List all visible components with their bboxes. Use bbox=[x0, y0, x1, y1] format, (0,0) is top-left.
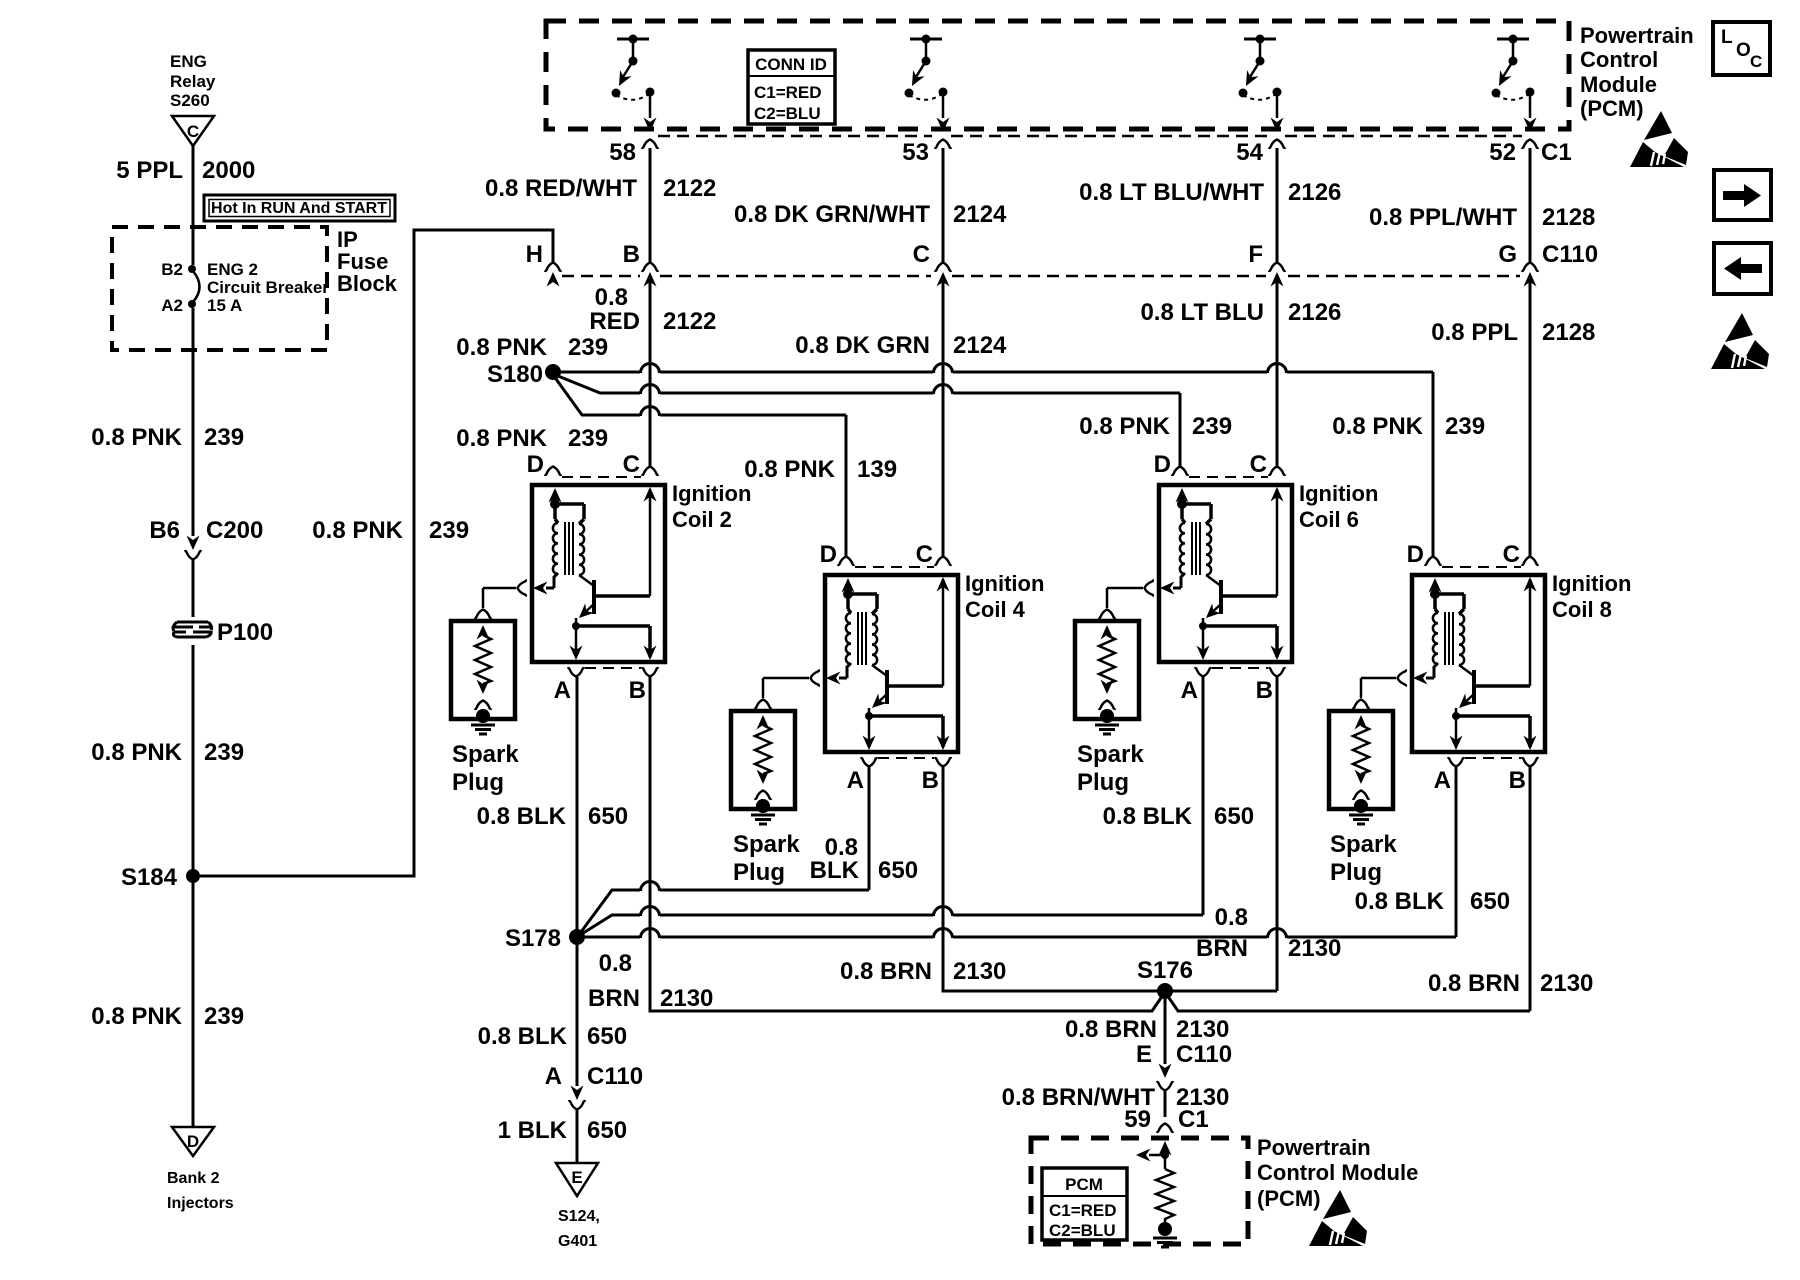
svg-text:A: A bbox=[545, 1063, 562, 1090]
svg-text:S124,: S124, bbox=[558, 1208, 600, 1225]
svg-text:2128: 2128 bbox=[1542, 319, 1595, 346]
svg-text:650: 650 bbox=[1214, 803, 1254, 830]
svg-text:S184: S184 bbox=[121, 864, 178, 891]
svg-text:0.8: 0.8 bbox=[599, 950, 632, 977]
svg-text:239: 239 bbox=[1192, 413, 1232, 440]
svg-text:0.8 PNK: 0.8 PNK bbox=[312, 517, 403, 544]
svg-text:0.8 DK GRN: 0.8 DK GRN bbox=[795, 332, 930, 359]
svg-text:BLK: BLK bbox=[810, 857, 860, 884]
svg-text:Plug: Plug bbox=[452, 769, 504, 796]
svg-text:0.8 DK GRN/WHT: 0.8 DK GRN/WHT bbox=[734, 201, 930, 228]
svg-text:Ignition: Ignition bbox=[672, 481, 751, 506]
svg-text:Bank 2: Bank 2 bbox=[167, 1170, 220, 1187]
svg-text:C2=BLU: C2=BLU bbox=[1049, 1221, 1116, 1240]
svg-text:2126: 2126 bbox=[1288, 179, 1341, 206]
svg-text:Coil 8: Coil 8 bbox=[1552, 597, 1612, 622]
svg-text:239: 239 bbox=[1445, 413, 1485, 440]
svg-text:0.8 PNK: 0.8 PNK bbox=[744, 456, 835, 483]
svg-text:A2: A2 bbox=[161, 296, 183, 315]
svg-text:S178: S178 bbox=[505, 925, 561, 952]
svg-text:Spark: Spark bbox=[1077, 741, 1144, 768]
svg-text:Powertrain: Powertrain bbox=[1257, 1135, 1371, 1160]
svg-text:2128: 2128 bbox=[1542, 204, 1595, 231]
svg-text:239: 239 bbox=[204, 739, 244, 766]
svg-text:C110: C110 bbox=[1542, 241, 1598, 268]
svg-text:59: 59 bbox=[1124, 1106, 1151, 1133]
svg-text:F: F bbox=[1248, 241, 1263, 268]
svg-text:Spark: Spark bbox=[1330, 831, 1397, 858]
svg-text:Hot In RUN And START: Hot In RUN And START bbox=[211, 200, 387, 217]
svg-text:0.8 BLK: 0.8 BLK bbox=[477, 803, 567, 830]
svg-text:ENG: ENG bbox=[170, 52, 207, 71]
svg-text:2124: 2124 bbox=[953, 201, 1007, 228]
svg-text:2130: 2130 bbox=[660, 985, 713, 1012]
svg-text:139: 139 bbox=[857, 456, 897, 483]
svg-text:0.8 BLK: 0.8 BLK bbox=[1103, 803, 1193, 830]
svg-text:650: 650 bbox=[587, 1023, 627, 1050]
svg-text:B6: B6 bbox=[149, 517, 180, 544]
svg-text:2124: 2124 bbox=[953, 332, 1007, 359]
svg-text:2130: 2130 bbox=[1176, 1016, 1229, 1043]
svg-text:53: 53 bbox=[902, 139, 929, 166]
svg-text:239: 239 bbox=[429, 517, 469, 544]
svg-text:C: C bbox=[1750, 52, 1762, 71]
svg-text:2000: 2000 bbox=[202, 157, 255, 184]
svg-text:CONN ID: CONN ID bbox=[755, 55, 827, 74]
svg-text:1 BLK: 1 BLK bbox=[498, 1117, 568, 1144]
svg-text:2122: 2122 bbox=[663, 308, 716, 335]
svg-text:2122: 2122 bbox=[663, 175, 716, 202]
svg-text:58: 58 bbox=[609, 139, 636, 166]
svg-text:52: 52 bbox=[1489, 139, 1516, 166]
svg-text:0.8 PNK: 0.8 PNK bbox=[91, 739, 182, 766]
svg-text:Spark: Spark bbox=[452, 741, 519, 768]
svg-text:650: 650 bbox=[588, 803, 628, 830]
svg-text:L: L bbox=[1721, 27, 1733, 48]
svg-text:C1=RED: C1=RED bbox=[754, 83, 822, 102]
svg-text:(PCM): (PCM) bbox=[1580, 96, 1644, 121]
svg-text:239: 239 bbox=[204, 1003, 244, 1030]
svg-text:0.8 LT BLU/WHT: 0.8 LT BLU/WHT bbox=[1079, 179, 1264, 206]
svg-text:ENG 2: ENG 2 bbox=[207, 260, 258, 279]
svg-text:H: H bbox=[526, 241, 543, 268]
svg-text:2126: 2126 bbox=[1288, 299, 1341, 326]
svg-text:2130: 2130 bbox=[1540, 970, 1593, 997]
svg-text:0.8: 0.8 bbox=[1215, 904, 1248, 931]
svg-text:0.8 PNK: 0.8 PNK bbox=[456, 334, 547, 361]
svg-text:C: C bbox=[187, 122, 199, 141]
svg-text:0.8 BRN: 0.8 BRN bbox=[840, 958, 932, 985]
svg-text:Coil 4: Coil 4 bbox=[965, 597, 1026, 622]
svg-text:Injectors: Injectors bbox=[167, 1195, 234, 1212]
svg-text:RED: RED bbox=[589, 308, 640, 335]
svg-text:P100: P100 bbox=[217, 619, 273, 646]
svg-text:Control: Control bbox=[1580, 47, 1658, 72]
svg-text:Module: Module bbox=[1580, 72, 1657, 97]
svg-text:2130: 2130 bbox=[1288, 935, 1341, 962]
svg-text:BRN: BRN bbox=[1196, 935, 1248, 962]
svg-text:Plug: Plug bbox=[1330, 859, 1382, 886]
svg-text:650: 650 bbox=[1470, 888, 1510, 915]
svg-text:15 A: 15 A bbox=[207, 296, 242, 315]
svg-text:239: 239 bbox=[568, 425, 608, 452]
svg-text:(PCM): (PCM) bbox=[1257, 1186, 1321, 1211]
svg-text:C1=RED: C1=RED bbox=[1049, 1201, 1117, 1220]
svg-text:G: G bbox=[1498, 241, 1517, 268]
svg-text:E: E bbox=[1136, 1041, 1152, 1068]
svg-text:G401: G401 bbox=[558, 1233, 597, 1250]
svg-text:239: 239 bbox=[204, 424, 244, 451]
svg-text:54: 54 bbox=[1236, 139, 1263, 166]
svg-text:650: 650 bbox=[587, 1117, 627, 1144]
svg-text:Ignition: Ignition bbox=[965, 571, 1044, 596]
svg-text:Spark: Spark bbox=[733, 831, 800, 858]
svg-text:B: B bbox=[623, 241, 640, 268]
svg-text:0.8: 0.8 bbox=[595, 284, 628, 311]
svg-text:5 PPL: 5 PPL bbox=[116, 157, 183, 184]
svg-text:Block: Block bbox=[337, 271, 398, 296]
svg-text:Powertrain: Powertrain bbox=[1580, 23, 1694, 48]
svg-text:C1: C1 bbox=[1178, 1106, 1209, 1133]
svg-text:S260: S260 bbox=[170, 91, 210, 110]
svg-text:C2=BLU: C2=BLU bbox=[754, 104, 821, 123]
svg-text:S176: S176 bbox=[1137, 957, 1193, 984]
svg-text:Circuit Breaker: Circuit Breaker bbox=[207, 278, 329, 297]
svg-text:O: O bbox=[1736, 40, 1751, 61]
svg-text:Relay: Relay bbox=[170, 72, 216, 91]
svg-text:0.8 PPL: 0.8 PPL bbox=[1431, 319, 1518, 346]
svg-text:C110: C110 bbox=[1176, 1041, 1232, 1068]
svg-text:650: 650 bbox=[878, 857, 918, 884]
svg-text:Plug: Plug bbox=[733, 859, 785, 886]
svg-text:BRN: BRN bbox=[588, 985, 640, 1012]
svg-text:D: D bbox=[187, 1132, 199, 1151]
svg-text:C1: C1 bbox=[1541, 139, 1572, 166]
svg-text:0.8 PNK: 0.8 PNK bbox=[456, 425, 547, 452]
svg-text:Ignition: Ignition bbox=[1299, 481, 1378, 506]
svg-text:Plug: Plug bbox=[1077, 769, 1129, 796]
svg-text:B2: B2 bbox=[161, 260, 183, 279]
svg-text:Ignition: Ignition bbox=[1552, 571, 1631, 596]
svg-text:C110: C110 bbox=[587, 1063, 643, 1090]
svg-text:C: C bbox=[913, 241, 930, 268]
svg-text:Control Module: Control Module bbox=[1257, 1160, 1418, 1185]
svg-text:0.8 PNK: 0.8 PNK bbox=[1332, 413, 1423, 440]
svg-text:Coil 6: Coil 6 bbox=[1299, 507, 1359, 532]
svg-text:Coil 2: Coil 2 bbox=[672, 507, 732, 532]
svg-text:0.8 BLK: 0.8 BLK bbox=[478, 1023, 568, 1050]
svg-text:0.8 BRN: 0.8 BRN bbox=[1065, 1016, 1157, 1043]
svg-text:PCM: PCM bbox=[1065, 1175, 1103, 1194]
svg-text:0.8 PNK: 0.8 PNK bbox=[1079, 413, 1170, 440]
svg-text:E: E bbox=[571, 1168, 582, 1187]
svg-text:0.8 PNK: 0.8 PNK bbox=[91, 1003, 182, 1030]
svg-text:0.8 LT BLU: 0.8 LT BLU bbox=[1140, 299, 1264, 326]
svg-text:0.8 RED/WHT: 0.8 RED/WHT bbox=[485, 175, 637, 202]
svg-text:0.8 BLK: 0.8 BLK bbox=[1355, 888, 1445, 915]
svg-text:S180: S180 bbox=[487, 361, 543, 388]
svg-text:2130: 2130 bbox=[953, 958, 1006, 985]
svg-text:0.8 BRN: 0.8 BRN bbox=[1428, 970, 1520, 997]
svg-text:0.8 PNK: 0.8 PNK bbox=[91, 424, 182, 451]
svg-text:C200: C200 bbox=[206, 517, 263, 544]
svg-text:0.8 PPL/WHT: 0.8 PPL/WHT bbox=[1369, 204, 1517, 231]
svg-text:239: 239 bbox=[568, 334, 608, 361]
